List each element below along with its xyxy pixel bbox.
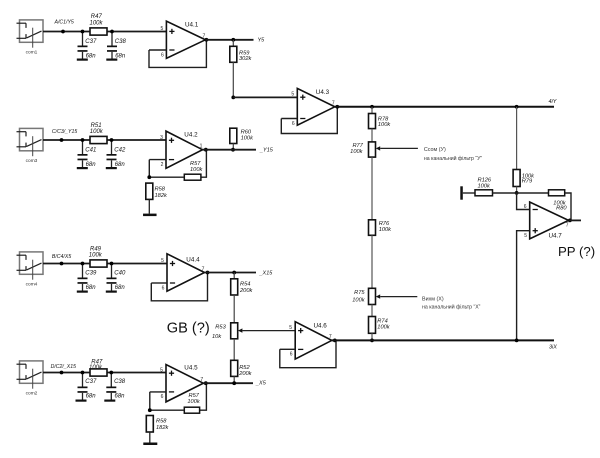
junction R54 top <box>232 271 236 275</box>
svg-text:_X5: _X5 <box>255 381 267 387</box>
svg-text:100k: 100k <box>241 136 254 142</box>
junction U4.7 output <box>568 219 572 223</box>
wire U4.2 -input <box>149 159 166 161</box>
wire R79 to inverting node <box>516 187 518 193</box>
svg-text:Ссом (У): Ссом (У) <box>424 147 446 153</box>
ground for C37 (row1) <box>77 59 88 61</box>
junction U4.3 output <box>335 105 339 109</box>
svg-text:_Y15: _Y15 <box>259 148 274 154</box>
svg-text:182k: 182k <box>156 425 169 431</box>
junction R59 top <box>231 38 235 42</box>
wire R58 to ground (row4) <box>149 432 151 443</box>
wire R59 to node <box>232 62 234 97</box>
svg-text:100k: 100k <box>89 252 103 258</box>
svg-text:R53: R53 <box>215 325 226 331</box>
wire R58 to ground <box>148 199 150 213</box>
resistor R52 200k <box>231 360 253 377</box>
svg-text:R57: R57 <box>189 393 200 399</box>
svg-text:R77: R77 <box>352 143 363 149</box>
svg-text:100k: 100k <box>187 399 200 405</box>
svg-text:U4.1: U4.1 <box>185 22 199 29</box>
svg-text:5: 5 <box>524 233 527 239</box>
wire R75 wiper to filter X <box>380 296 417 298</box>
feedback wire U4.4 <box>151 273 207 301</box>
junction R57/R58 <box>147 175 151 179</box>
label GB (?) <box>167 321 210 337</box>
ground for C37 (row4) <box>76 400 87 402</box>
wire com1 to U4.1 +input <box>43 31 166 33</box>
wire R53 to R52 <box>233 339 235 361</box>
wire to R54 <box>233 273 235 279</box>
node Y5 label <box>258 38 266 44</box>
svg-text:C42: C42 <box>114 147 126 153</box>
svg-text:6: 6 <box>161 52 164 58</box>
connector com3 <box>17 128 44 164</box>
feedback wire U4.1 <box>149 40 206 68</box>
node B/C4/X5 label <box>52 254 71 260</box>
ground for C39 <box>77 291 88 293</box>
junction X bus / U4.7 +input <box>515 339 519 343</box>
junction C42 <box>110 138 114 142</box>
trimmer R75 100k <box>352 288 380 304</box>
wire Y bus to R78 <box>371 107 373 114</box>
svg-text:R80: R80 <box>556 206 567 212</box>
resistor R58 182k (row4) <box>146 416 169 433</box>
wire X bus <box>332 339 554 341</box>
capacitor C38 (row4) <box>106 373 125 400</box>
resistor R47 (row4) <box>89 359 107 376</box>
connector com2 <box>17 361 44 397</box>
svg-text:com2: com2 <box>26 390 38 396</box>
svg-text:Вихм (Х): Вихм (Х) <box>422 296 444 302</box>
feedback wire R57 to -input <box>149 160 184 178</box>
svg-text:100k: 100k <box>350 149 363 155</box>
svg-text:_X15: _X15 <box>259 271 274 277</box>
svg-text:6: 6 <box>162 285 165 291</box>
svg-text:68n: 68n <box>86 162 97 168</box>
ground for R58 (row2) <box>143 214 157 217</box>
svg-text:7: 7 <box>202 266 205 272</box>
svg-text:R49: R49 <box>90 246 102 252</box>
wire U4.5 -input <box>150 391 166 393</box>
svg-text:C38: C38 <box>115 39 127 45</box>
svg-text:2: 2 <box>161 162 164 168</box>
svg-text:68n: 68n <box>115 285 126 291</box>
svg-text:3: 3 <box>160 135 163 141</box>
svg-text:на канальний фільтр “Х”: на канальний фільтр “Х” <box>422 303 481 310</box>
wire to R59 <box>232 40 234 47</box>
op-amp U4.1 <box>161 21 206 58</box>
wire com2 to U4.5 +input <box>43 372 166 374</box>
node 3iX label <box>549 345 557 351</box>
svg-text:R58: R58 <box>156 419 167 425</box>
svg-text:C41: C41 <box>85 147 96 153</box>
wire Y bus <box>335 106 554 108</box>
svg-text:U4.6: U4.6 <box>314 322 328 329</box>
ground for C41 <box>77 167 88 169</box>
resistor R126 100k <box>475 178 493 196</box>
wire U4.4 output <box>205 272 257 274</box>
junction on row2 wire <box>60 138 64 142</box>
svg-text:7: 7 <box>329 334 332 340</box>
junction R60 on U4.2 output <box>231 148 235 152</box>
node A/C1/Y5 label <box>54 20 74 26</box>
capacitor C38 (row1) <box>107 32 126 60</box>
resistor R80 100k <box>549 190 568 212</box>
svg-text:100k: 100k <box>89 365 103 371</box>
label Ccom (Y) <box>424 147 446 153</box>
junction R59/R60/U4.3 <box>231 96 235 100</box>
svg-text:R79: R79 <box>522 179 533 185</box>
feedback wire U4.2 upper <box>201 150 207 178</box>
wire R52 to U4.5 output <box>233 376 235 383</box>
svg-text:U4.3: U4.3 <box>316 89 330 96</box>
junction U4.2 output <box>204 148 208 152</box>
svg-text:100k: 100k <box>377 324 390 330</box>
resistor R74 100k <box>369 317 391 334</box>
svg-text:68n: 68n <box>115 162 126 168</box>
svg-text:200k: 200k <box>239 288 253 294</box>
svg-text:D/C2/_X15: D/C2/_X15 <box>51 364 76 370</box>
junction C40 <box>110 262 114 266</box>
svg-text:C37: C37 <box>85 39 97 45</box>
feedback wire U4.3 <box>281 107 337 134</box>
svg-text:68n: 68n <box>115 53 126 59</box>
junction Y bus / R78 <box>370 105 374 109</box>
svg-text:7: 7 <box>566 223 569 229</box>
junction C39 <box>81 262 85 266</box>
node C/C3/_Y15 label <box>52 129 77 135</box>
wire R74 to X bus <box>371 333 373 340</box>
wire com3 to U4.2 +input <box>43 139 166 141</box>
resistor R78 100k <box>369 114 392 129</box>
node _X15 label <box>259 271 274 277</box>
svg-text:U4.4: U4.4 <box>186 257 200 264</box>
capacitor C37 (row1) <box>78 32 97 60</box>
svg-text:68n: 68n <box>86 394 97 400</box>
junction C38 <box>110 30 114 34</box>
ground for C40 <box>106 291 117 293</box>
ground for R58 (row4) <box>143 443 157 446</box>
resistor R49 (row3) <box>89 246 107 267</box>
wire U4.6 -input <box>280 348 295 350</box>
op-amp U4.7 <box>524 202 569 239</box>
wire R80 to U4.7 output <box>565 193 571 220</box>
wire R78 to R77 <box>371 129 373 142</box>
ground for C38 (row1) <box>106 59 117 61</box>
svg-text:U4.7: U4.7 <box>549 232 563 239</box>
svg-text:302k: 302k <box>239 56 252 62</box>
svg-text:R47: R47 <box>91 14 103 20</box>
resistor R59 302k <box>230 46 253 62</box>
trimmer R77 100k <box>350 142 380 157</box>
trimmer R53 10k <box>212 323 242 340</box>
wire R126 to node <box>493 192 517 194</box>
wire node to R80 <box>517 192 549 194</box>
svg-text:com4: com4 <box>26 281 38 287</box>
junction C41 <box>81 138 85 142</box>
capacitor C41 <box>78 140 97 168</box>
wire R60 bottom <box>232 144 234 150</box>
feedback wire U4.5 upper <box>200 383 207 410</box>
junction R52 bottom <box>232 381 236 385</box>
capacitor C42 <box>107 140 126 168</box>
resistor R58 182k (row2) <box>146 183 168 199</box>
ground for C38 (row4) <box>104 400 115 402</box>
wire U4.3 -input <box>281 118 297 120</box>
svg-text:100k: 100k <box>352 298 365 304</box>
junction inverting node <box>515 191 519 195</box>
wire R53 wiper to U4.6 +input <box>242 330 295 332</box>
svg-text:4iY: 4iY <box>549 99 557 105</box>
svg-text:C40: C40 <box>114 270 126 276</box>
svg-text:68n: 68n <box>86 53 97 59</box>
junction on row4 wire <box>60 371 64 375</box>
svg-text:C/C3/_Y15: C/C3/_Y15 <box>52 129 77 135</box>
capacitor C39 <box>78 264 97 292</box>
node 4iY label <box>549 99 557 105</box>
wire U4.5 output <box>203 382 253 384</box>
svg-text:PP (?): PP (?) <box>558 244 595 259</box>
svg-text:5: 5 <box>289 325 292 331</box>
capacitor C37 (row4) <box>78 373 97 400</box>
label PP (?) <box>558 244 595 259</box>
svg-text:100k: 100k <box>379 227 392 233</box>
svg-text:5: 5 <box>161 26 164 32</box>
ground for C42 <box>106 167 117 169</box>
svg-text:100k: 100k <box>378 122 391 128</box>
resistor R51 (row2) <box>90 123 107 144</box>
feedback wire R57 to -input (row4) <box>150 392 185 410</box>
wire R75 to R74 <box>371 305 373 317</box>
svg-text:100k: 100k <box>478 183 491 189</box>
junction on row3 wire <box>60 262 64 266</box>
label Vyhm (X) <box>422 296 444 302</box>
junction on row1 wire <box>61 30 65 34</box>
svg-text:6: 6 <box>290 352 293 358</box>
svg-text:на канальний фільтр “У”: на канальний фільтр “У” <box>424 155 483 162</box>
junction U4.5 output <box>204 381 208 385</box>
ground for R126 (rotated) <box>460 186 463 199</box>
svg-text:R54: R54 <box>240 282 250 288</box>
wire U4.1 output <box>205 39 253 41</box>
wire U4.4 -input <box>151 282 167 284</box>
node _Y15 label <box>259 148 274 154</box>
svg-text:6: 6 <box>292 121 295 127</box>
resistor R54 200k <box>231 279 254 295</box>
connector com4 <box>17 252 44 288</box>
svg-text:A/C1/Y5: A/C1/Y5 <box>54 20 74 26</box>
svg-text:1: 1 <box>200 144 203 150</box>
label na kanalniy filtr X <box>422 303 481 310</box>
junction C38 row4 <box>109 371 113 375</box>
op-amp U4.3 <box>291 88 335 126</box>
svg-text:C39: C39 <box>85 270 97 276</box>
wire node to U4.7 -input <box>517 193 530 210</box>
wire ground to R126 <box>463 192 475 194</box>
svg-text:GB (?): GB (?) <box>167 321 210 337</box>
svg-text:6: 6 <box>161 394 164 400</box>
svg-text:R58: R58 <box>155 187 166 193</box>
svg-text:100k: 100k <box>190 167 203 173</box>
op-amp U4.5 <box>160 365 203 402</box>
junction U4.1 output <box>205 38 209 42</box>
svg-text:Y5: Y5 <box>258 38 266 44</box>
connector com1 <box>17 20 44 56</box>
junction Y bus / R79 <box>515 105 519 109</box>
label na kanalniy filtr Y <box>424 155 483 162</box>
resistor R76 100k <box>369 220 393 236</box>
svg-text:5: 5 <box>291 92 294 98</box>
wire R54 to R53 <box>233 295 235 323</box>
wire R76 to R75 <box>371 235 373 288</box>
junction U4.4 output <box>206 271 210 275</box>
wire U4.2 output <box>203 149 257 151</box>
junction U4.6 output <box>333 339 337 343</box>
svg-text:182k: 182k <box>155 193 168 199</box>
svg-text:68n: 68n <box>86 285 97 291</box>
op-amp U4.4 <box>161 254 205 291</box>
svg-text:com1: com1 <box>26 49 38 55</box>
svg-text:5: 5 <box>161 258 164 264</box>
svg-text:100k: 100k <box>90 129 104 135</box>
svg-text:C37: C37 <box>85 379 97 385</box>
svg-text:68n: 68n <box>115 394 126 400</box>
svg-text:U4.5: U4.5 <box>184 365 198 372</box>
capacitor C40 <box>107 264 126 292</box>
node _X5 label <box>255 381 267 387</box>
junction C37 <box>81 30 85 34</box>
resistor R57 100k (row2) <box>184 161 203 180</box>
svg-text:C38: C38 <box>114 379 126 385</box>
feedback wire U4.6 <box>280 340 336 367</box>
svg-text:200k: 200k <box>238 371 252 377</box>
junction R57/R58 row4 <box>148 408 152 412</box>
svg-text:10k: 10k <box>212 334 222 340</box>
junction C37 row4 <box>81 371 85 375</box>
svg-text:100k: 100k <box>90 20 104 26</box>
wire to U4.3 +input <box>233 96 297 98</box>
op-amp U4.2 <box>160 131 203 168</box>
node D/C2/_X15 label <box>51 364 76 370</box>
svg-text:7: 7 <box>332 101 335 107</box>
resistor R47 (row1) <box>90 14 108 35</box>
svg-text:U4.2: U4.2 <box>184 132 198 139</box>
svg-text:B/C4/X5: B/C4/X5 <box>52 254 71 260</box>
wire U4.7 output <box>569 219 581 221</box>
wire Y bus to R79 <box>516 107 518 170</box>
wire U4.1 -input <box>149 49 166 51</box>
junction X bus / R74 <box>370 339 374 343</box>
svg-text:3iX: 3iX <box>549 345 557 351</box>
svg-text:5: 5 <box>160 368 163 374</box>
resistor R79 100k <box>513 170 535 187</box>
wire R77 wiper to filter Y <box>380 147 418 149</box>
svg-text:7: 7 <box>200 377 203 383</box>
op-amp U4.6 <box>289 322 332 359</box>
wire R77 to R76 <box>371 157 373 220</box>
resistor R57 100k (row4) <box>184 393 201 413</box>
resistor R60 100k <box>230 128 254 143</box>
wire com4 to U4.4 +input <box>43 263 167 265</box>
svg-text:R75: R75 <box>354 290 365 296</box>
wire U4.7 +input to X bus <box>517 231 530 341</box>
svg-text:com3: com3 <box>26 158 38 164</box>
